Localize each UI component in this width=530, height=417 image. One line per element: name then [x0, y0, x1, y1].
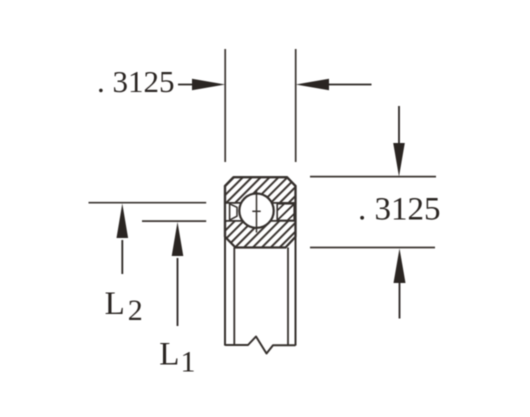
- left race land vertical: [229, 203, 231, 221]
- outer profile redraw: [225, 177, 296, 237]
- extension line right (width dim): [295, 49, 297, 162]
- extension line L1: [142, 220, 206, 222]
- retainer hatch corner bottom-right: [288, 214, 294, 220]
- raceway band (white): [224, 204, 297, 220]
- width dim leader left: [178, 84, 196, 86]
- break line with zigzag: [225, 337, 296, 354]
- svg-text:1: 1: [181, 346, 196, 379]
- height dim lower arrow stem: [399, 281, 401, 319]
- height dim upper arrow stem: [398, 106, 400, 146]
- svg-text:. 3125: . 3125: [97, 64, 175, 99]
- L1 arrow stem: [177, 258, 179, 326]
- width dim arrow right-pointing: [192, 79, 225, 91]
- extension line left (width dim): [224, 49, 226, 162]
- width dim leader right: [328, 84, 372, 86]
- L2 arrow up-pointing: [117, 204, 129, 239]
- svg-text:2: 2: [128, 294, 143, 327]
- outer ring cross-section (hatched octagon): [225, 177, 296, 247]
- shaft outer left wall: [224, 236, 226, 346]
- extension line top (height dim): [310, 176, 436, 178]
- height dim arrow up-pointing: [394, 248, 406, 283]
- extension line bottom (height dim): [310, 247, 435, 249]
- svg-text:L: L: [105, 286, 125, 322]
- svg-text:L: L: [159, 337, 179, 373]
- ball center tick: [252, 210, 260, 212]
- shaft outer right wall: [295, 236, 297, 346]
- retainer hatch corner top-left: [278, 204, 285, 210]
- height dim arrow down-pointing: [393, 143, 405, 177]
- raceway top line: [225, 202, 296, 204]
- width dim arrow left-pointing: [296, 79, 329, 91]
- L2 arrow stem: [121, 240, 123, 274]
- svg-text:. 3125: . 3125: [358, 192, 441, 228]
- shaft inner left wall: [233, 248, 235, 346]
- ball center line: [256, 190, 258, 233]
- shaft inner right wall: [287, 248, 289, 346]
- L1 arrow up-pointing: [172, 222, 184, 256]
- left race keystone profile: [230, 204, 237, 220]
- ball: [239, 194, 273, 228]
- retainer hatch main diagonal: [278, 204, 294, 220]
- raceway bottom line: [225, 220, 296, 222]
- retainer block (square, right of ball): [277, 204, 294, 221]
- extension line L2: [89, 202, 207, 204]
